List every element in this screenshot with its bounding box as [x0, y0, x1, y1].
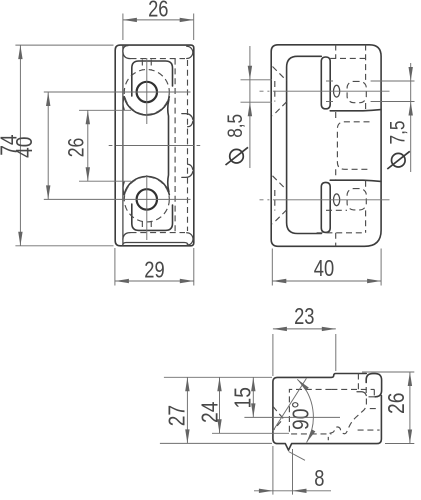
dim 26 top: arrows — [123, 18, 137, 22]
hidden edge line A — [174, 59, 176, 233]
angle 90 leg lower — [289, 452, 306, 461]
hidden face edge top — [365, 45, 367, 111]
right side notch lower — [182, 164, 193, 177]
bottom hole edge oval — [334, 194, 340, 206]
hidden edge top — [330, 57, 365, 59]
dim 26 mid: arrows — [86, 110, 90, 124]
top chamfer band hidden middle — [131, 58, 186, 60]
dim phi 7,5: diameter symbol — [392, 153, 406, 167]
top boss step edge — [330, 110, 381, 111]
angle 90 arc — [297, 379, 313, 442]
dim 40: dimension line — [47, 92, 49, 199]
dim 26 right: dimension line — [409, 372, 411, 444]
dim phi 7,5: extension lines — [326, 81, 415, 102]
bottom hole axis centerline — [260, 199, 390, 201]
hidden slot rectangle — [289, 389, 331, 434]
dim 40 bottom: dimension line — [272, 280, 381, 282]
tab neck edge — [357, 392, 366, 396]
bottom boss step edge — [330, 180, 381, 181]
left edge vee notch hidden — [273, 406, 283, 430]
hidden vertical bottom center — [335, 169, 337, 246]
svg-text:7,5: 7,5 — [387, 121, 410, 145]
svg-text:40: 40 — [11, 137, 37, 158]
right side notch upper — [182, 114, 193, 127]
dim 8: extension lines — [273, 446, 293, 495]
dim 23: arrows — [273, 327, 287, 331]
bottom view tab end block — [366, 374, 381, 397]
dim phi 8,5: arrows — [248, 66, 252, 80]
dim phi 7,5: dimension line — [410, 63, 412, 172]
dim 26 mid: extension lines — [79, 110, 131, 181]
dim 29: dimension line — [115, 280, 194, 282]
hidden tab profile squiggle — [328, 399, 366, 441]
svg-text:24: 24 — [197, 402, 223, 423]
dim 24 bottom extension — [212, 432, 289, 434]
top hole chamfer hidden — [273, 67, 287, 116]
front face left edge — [122, 46, 124, 245]
top hole hidden circle — [124, 70, 169, 115]
hidden edge right A — [370, 408, 380, 410]
hidden edge bottom — [317, 232, 366, 234]
dim 40 bottom: arrows — [272, 279, 286, 283]
dim phi 8,5: diameter symbol — [230, 149, 244, 163]
bottom chamfer band left corner — [123, 233, 130, 240]
top counterbore hidden square — [347, 81, 366, 102]
dim 26 top: dimension line — [123, 19, 193, 21]
svg-text:8: 8 — [314, 466, 324, 492]
svg-text:29: 29 — [144, 257, 164, 283]
svg-text:26: 26 — [65, 138, 89, 158]
bottom chamfer band right corner — [187, 233, 193, 246]
angle 90 leg upper — [273, 378, 307, 431]
svg-text:15: 15 — [230, 387, 256, 408]
top hole slot — [321, 57, 330, 109]
hidden edge top right of slot — [331, 389, 374, 398]
dim 26 right: extension lines — [362, 372, 414, 444]
front face top corner — [123, 46, 128, 51]
side view outer contour — [271, 45, 381, 247]
bottom view outer contour — [273, 374, 382, 451]
svg-text:40: 40 — [314, 256, 334, 282]
hidden vertical top center — [335, 45, 337, 122]
bottom counterbore hidden square — [347, 189, 366, 210]
dim 15: dimension line — [252, 377, 254, 417]
dim 23: dimension line — [273, 328, 336, 330]
dim 27 bottom extension — [160, 442, 272, 444]
dim 27/24/15 shared top extension — [164, 376, 272, 378]
hidden edge stub bottom — [326, 209, 347, 211]
dim 15: arrows — [251, 377, 255, 391]
top hole vertical centerline — [146, 58, 148, 124]
svg-text:90°: 90° — [288, 401, 314, 430]
dim 24: dimension line — [219, 377, 221, 433]
dim 26 right: arrows — [408, 372, 412, 386]
bottom hole slot — [321, 182, 330, 232]
dim 26 top: extension lines — [123, 14, 194, 41]
hidden edge right B — [358, 429, 380, 431]
svg-text:8,5: 8,5 — [225, 114, 248, 138]
top hole edge oval — [334, 85, 340, 97]
dim 8: dimension line — [254, 490, 331, 492]
side view inner contour — [287, 56, 322, 233]
tab end block hidden edges — [366, 386, 374, 397]
front view outer contour — [115, 45, 194, 246]
top boss lower arc — [124, 97, 169, 115]
hidden slot edges bottom — [142, 221, 151, 231]
dim 74: dimension line — [19, 45, 21, 246]
dim 24: arrows — [217, 377, 221, 391]
bottom boss upper arc — [124, 176, 169, 194]
svg-text:27: 27 — [164, 405, 190, 426]
top hole axis centerline — [260, 90, 390, 92]
bottom hole chamfer hidden — [273, 176, 287, 224]
dim phi 8,5: dimension line — [249, 46, 251, 168]
dim 74: arrows — [18, 45, 22, 59]
bottom chamfer band hidden middle — [131, 232, 186, 234]
dim 8: arrows — [259, 489, 273, 493]
hidden slot edges top — [142, 60, 151, 71]
bottom hole vertical centerline — [146, 175, 148, 240]
dim phi 7,5: arrows — [409, 67, 413, 81]
bottom boss outline — [132, 204, 173, 230]
top chamfer band right corner — [187, 46, 193, 58]
bottom boss left blend — [123, 182, 124, 195]
dim 27: dimension line — [186, 377, 188, 443]
svg-text:26: 26 — [148, 0, 168, 22]
hidden vertical below tab — [357, 374, 359, 390]
central recess right edge — [168, 100, 169, 192]
top chamfer band left corner — [123, 52, 130, 59]
hidden edge line B — [187, 60, 189, 231]
dim 29: extension lines — [115, 248, 194, 286]
dim 40 bottom: extension lines — [272, 249, 381, 286]
hidden face edge bottom — [365, 181, 367, 233]
mid horizontal centerline — [109, 145, 201, 147]
top boss outline — [132, 61, 173, 96]
top boss left blend — [123, 97, 124, 110]
dim 23: extension lines — [273, 334, 336, 376]
central recess hidden contour — [337, 122, 369, 170]
dim 15 bottom extension / hole axis — [244, 416, 340, 418]
dim phi 8,5: extension lines — [241, 80, 273, 102]
angle 90 arrows — [296, 378, 309, 391]
top hole — [137, 82, 157, 102]
dim 40: extension/center lines through holes — [44, 92, 191, 199]
dim 29: arrows — [115, 279, 129, 283]
svg-text:26: 26 — [383, 393, 409, 414]
dim 74: extension lines — [15, 45, 113, 246]
dim 27: arrows — [185, 377, 189, 391]
bottom hole hidden circle — [124, 177, 169, 222]
bottom hole — [137, 189, 157, 209]
dim 40: arrows — [46, 92, 50, 106]
svg-text:23: 23 — [294, 304, 314, 330]
front face bottom edge dish — [123, 243, 189, 246]
dim 26 mid: dimension line — [87, 110, 89, 181]
